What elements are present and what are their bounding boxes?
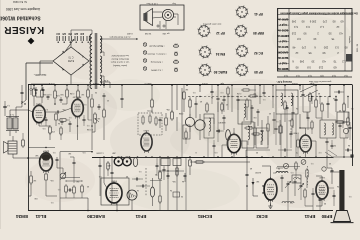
horizontal link t5	[299, 127, 311, 128]
resistor R34	[315, 98, 317, 118]
capacitor C46	[163, 166, 166, 180]
wire chassis drop	[30, 204, 32, 211]
svg-text:25k: 25k	[166, 108, 169, 110]
capacitor C24	[339, 123, 342, 138]
svg-text:= Abgleichpunkt: = Abgleichpunkt	[149, 45, 165, 48]
dashed link osc	[307, 166, 309, 185]
svg-text:+240V: +240V	[48, 82, 55, 84]
wire x182	[181, 88, 183, 157]
label bottom EABC80	[87, 214, 105, 219]
capacitor C7	[69, 121, 72, 132]
svg-text:KAISER: KAISER	[4, 24, 45, 35]
wire Tr2 bottom	[10, 131, 16, 137]
svg-text:1,2: 1,2	[342, 60, 346, 64]
capacitor C21	[292, 110, 295, 128]
tone filter network (dashed)	[138, 113, 162, 135]
resistor R26	[241, 89, 256, 91]
resistor R47	[107, 157, 109, 176]
rect IF can 1	[204, 114, 214, 138]
wire e1	[284, 85, 285, 97]
wire e4	[305, 152, 307, 157]
wire rm3	[295, 114, 297, 157]
wire v-em1	[27, 157, 40, 159]
svg-text:215: 215	[318, 66, 323, 70]
wire a1	[55, 104, 61, 146]
wire vol4	[91, 126, 93, 150]
wire bb3	[246, 186, 248, 211]
capacitor C28	[294, 179, 297, 196]
capacitor C12	[159, 117, 162, 128]
wire antenna feed	[330, 157, 340, 172]
svg-text:1M: 1M	[256, 180, 259, 182]
wire v-em6	[66, 180, 82, 183]
wire t8	[351, 157, 353, 166]
wire bridge left	[40, 61, 53, 75]
coil in can1	[209, 118, 211, 136]
wire drop x152	[151, 85, 153, 100]
tube socket EC 92 (von unten)	[235, 44, 263, 57]
capacitor C30	[333, 190, 336, 206]
wire v-em7	[70, 157, 76, 181]
small coil osc	[150, 178, 154, 206]
resistor R51	[335, 121, 348, 123]
resistor R37	[347, 112, 349, 138]
wire bb2	[246, 157, 248, 172]
resistor R10	[22, 133, 25, 148]
wire vol2	[91, 109, 93, 127]
wire h3	[104, 157, 108, 189]
wire rectifier HT	[100, 76, 105, 85]
wire mid bus	[92, 157, 333, 159]
wire h4	[111, 157, 114, 203]
svg-text:EC 92: EC 92	[254, 51, 263, 55]
svg-text:4,5: 4,5	[322, 60, 326, 64]
resistor R23	[183, 85, 185, 112]
box around EC92 V6	[101, 178, 129, 205]
oscillator coil disc	[127, 190, 137, 200]
wire r5	[343, 85, 345, 104]
wire v-em2	[28, 171, 31, 196]
label EL41	[36, 103, 42, 106]
diag rm2	[325, 150, 337, 158]
wire e0	[261, 145, 263, 157]
box rm	[337, 112, 349, 128]
wire g4	[305, 206, 313, 211]
wire y177 seg	[62, 177, 80, 179]
svg-text:U 400: U 400	[126, 32, 133, 34]
tube socket EF 80 (von unten)	[235, 63, 262, 76]
resistor R49	[185, 128, 187, 144]
label EM34	[42, 150, 49, 152]
coil in can2b	[244, 104, 246, 121]
coil can3 b	[291, 93, 293, 106]
wire y150 seg	[246, 150, 270, 157]
label B+	[144, 82, 152, 84]
label bottom EC92	[256, 214, 268, 219]
capacitor C45	[156, 157, 159, 176]
svg-text:Ug2 V: Ug2 V	[279, 61, 286, 64]
wire a2	[5, 116, 7, 118]
capacitor C40	[99, 157, 102, 180]
resistor R27	[248, 95, 258, 97]
wire if4	[259, 85, 260, 104]
resistor R48	[159, 194, 161, 211]
capacitor C53	[278, 149, 292, 152]
circle small g	[322, 167, 326, 171]
speaker and output transformer box	[140, 5, 184, 30]
wire e2	[292, 96, 293, 110]
bridge rectifier Gr1 B250C75	[53, 47, 89, 75]
rect IF can 2b	[238, 100, 251, 124]
wire EM34 left	[30, 85, 32, 150]
tuning gang C left	[114, 157, 123, 166]
coil IF ellipse	[226, 130, 231, 150]
capacitor C44	[213, 140, 216, 157]
wire y166 link	[277, 166, 300, 168]
capacitor C49	[334, 91, 344, 94]
wire t1	[302, 85, 305, 112]
capacitor C52	[331, 140, 334, 149]
capacitor C4	[60, 97, 63, 103]
wire d4	[241, 141, 247, 157]
capacitor C51	[307, 112, 310, 130]
wire e3	[300, 128, 306, 135]
wire r2	[299, 85, 301, 128]
svg-text:Heizung 6,3V~: Heizung 6,3V~	[276, 80, 292, 82]
label above speaker box	[146, 2, 176, 4]
wire h1	[116, 157, 118, 183]
tube EF41 V2	[141, 131, 152, 153]
wire h9	[176, 157, 178, 211]
horizontal link t6	[316, 100, 322, 118]
IF trafo small box	[292, 175, 301, 183]
label bottom EL41	[35, 214, 46, 219]
coil bottom b	[278, 202, 294, 203]
switch mains Sw1	[30, 84, 32, 95]
wire v-em4	[57, 168, 63, 173]
antenna rod	[331, 170, 354, 223]
wire e5	[311, 141, 316, 157]
wire drop x122	[121, 85, 124, 108]
coil osc a	[324, 123, 326, 135]
svg-text:EF80: EF80	[321, 214, 332, 219]
resistor R17 P1 volume	[94, 112, 99, 125]
wire y152 link	[60, 151, 93, 153]
svg-text:50µF: 50µF	[309, 82, 315, 84]
svg-text:54 / 6234: 54 / 6234	[356, 44, 358, 53]
capacitor C35	[237, 96, 240, 110]
wire h8	[167, 157, 169, 211]
rect on midbus 2	[173, 159, 181, 166]
resistor R46	[60, 126, 62, 140]
svg-text:EM34: EM34	[16, 214, 28, 219]
capacitor C29	[331, 168, 334, 184]
wire f1	[262, 157, 271, 179]
svg-text:+250V: +250V	[201, 82, 208, 84]
svg-text:EBF 80: EBF 80	[253, 31, 264, 35]
svg-text:EC92: EC92	[254, 171, 260, 173]
wire y171 link	[158, 170, 184, 171]
coil in can2	[248, 126, 250, 145]
capacitor C14	[136, 185, 150, 188]
svg-text:5k: 5k	[348, 144, 350, 146]
label Röhrenlage	[202, 23, 221, 26]
wire audio v2	[41, 85, 43, 103]
svg-text:= Lötöse a. Chassis: = Lötöse a. Chassis	[146, 53, 166, 56]
capacitor C47	[312, 188, 315, 206]
capacitor C3	[47, 94, 50, 100]
resistor R24	[189, 97, 191, 119]
component value labels	[33, 88, 353, 204]
resistor R18	[151, 98, 154, 113]
wire secondary to lamp	[100, 38, 138, 40]
wire rm1	[275, 85, 278, 145]
wire gang	[118, 157, 128, 159]
tuning gang C right	[123, 157, 132, 166]
wire Tr2 top to bus	[16, 85, 24, 118]
tube EL41 V4	[33, 103, 45, 124]
wire bm1	[100, 180, 104, 196]
resistor R44	[227, 85, 229, 97]
antenna terminal	[350, 154, 354, 158]
capacitor C41	[132, 178, 143, 181]
wire v-em3	[46, 186, 57, 196]
wire x208b	[207, 138, 209, 157]
tube socket EBF 80 (von unten)	[234, 24, 263, 37]
speaker Lsp	[4, 141, 18, 154]
rect IF can 3	[276, 90, 298, 114]
wire vol5	[88, 119, 92, 121]
wire r6	[340, 138, 348, 150]
trimmer T1	[283, 163, 288, 168]
wire y168 seg	[276, 167, 283, 169]
capacitor C13	[103, 93, 106, 140]
svg-text:1M: 1M	[185, 88, 188, 90]
label tone	[147, 110, 152, 112]
capacitor C32	[290, 128, 293, 148]
coil can3 a	[281, 93, 283, 106]
resistor R31	[267, 116, 269, 145]
resistor R21	[176, 166, 178, 177]
svg-text:EC92: EC92	[256, 214, 268, 219]
capacitor C43	[223, 96, 226, 112]
capacitor C20	[273, 112, 276, 134]
resistor R33	[284, 97, 286, 123]
wire drop x172	[171, 85, 173, 112]
svg-text:0,5M: 0,5M	[178, 112, 183, 114]
resistor R14	[73, 185, 76, 198]
svg-text:1M: 1M	[68, 152, 71, 154]
capacitor C22	[286, 105, 289, 118]
label bottom EM34	[16, 214, 28, 219]
wire mains frame	[26, 63, 53, 100]
svg-text:W 253: W 253	[144, 32, 151, 34]
wire right frame	[352, 85, 354, 167]
box det	[256, 128, 268, 148]
resistor R16	[91, 94, 94, 109]
dashed AVC line	[188, 96, 330, 98]
wire EL41 cathode	[39, 123, 50, 140]
svg-text:+250V: +250V	[92, 82, 99, 84]
small box bm	[173, 192, 180, 197]
svg-text:L13 5 Ohm: L13 5 Ohm	[146, 2, 157, 4]
bus label smudge 2	[112, 152, 115, 155]
resistor R42	[297, 134, 299, 157]
svg-text:EF 41: EF 41	[254, 12, 263, 16]
junction dots on B+ bus	[33, 84, 345, 86]
resistor R22	[189, 157, 192, 175]
capacitor C37	[45, 117, 48, 126]
circle rm	[343, 128, 348, 138]
wire if3	[231, 85, 232, 112]
wire h5	[116, 203, 118, 211]
wire drop x177	[176, 85, 178, 110]
svg-text:EF41: EF41	[304, 214, 315, 219]
capacitor C27	[281, 175, 284, 192]
resistor R52	[311, 118, 313, 134]
wire r3	[315, 85, 317, 100]
svg-text:Ausgabe vom Juni 1950: Ausgabe vom Juni 1950	[6, 7, 40, 11]
label bottom EF41	[135, 214, 146, 219]
wire bottom chassis bus	[28, 210, 333, 212]
svg-text:245: 245	[299, 60, 304, 64]
label bottom EF80	[321, 214, 332, 219]
capacitor C10	[67, 189, 76, 192]
wire vol1	[91, 85, 93, 94]
transformer Tr1 primary and secondaries	[90, 33, 103, 89]
voltage measurement table	[277, 8, 358, 71]
output transformer Tr2	[6, 117, 19, 131]
label EBF80 V2b	[218, 121, 225, 123]
svg-text:EC92: EC92	[110, 180, 116, 182]
capacitor C18	[257, 109, 260, 126]
wire v-em5	[60, 198, 89, 211]
variable cap 1	[285, 181, 291, 200]
wire transformer top	[71, 30, 92, 36]
annotation voltage strapping	[110, 54, 129, 66]
capacitor C42	[167, 173, 170, 186]
wire audio v6	[87, 85, 89, 120]
wire f2	[268, 200, 272, 208]
diode det	[252, 178, 255, 188]
wire t2	[303, 112, 310, 118]
tube socket EABC 80 (von unten)	[198, 63, 227, 76]
svg-text:= Schirmung: = Schirmung	[150, 61, 163, 64]
capacitor mains filter C1 C2	[31, 84, 50, 97]
svg-text:EF41: EF41	[135, 214, 146, 219]
wire x186 drop	[185, 158, 187, 211]
svg-text:Lsp.: Lsp.	[172, 2, 177, 4]
wire h7	[159, 157, 162, 194]
bus label smudge 1	[95, 152, 103, 154]
bus annotation 3	[48, 82, 55, 84]
label EF41 V2	[143, 129, 149, 131]
resistor R20	[165, 113, 168, 131]
wire drop x104	[103, 85, 105, 88]
capacitor C38	[83, 115, 86, 126]
capacitor C34	[211, 85, 214, 104]
wire f3	[287, 200, 289, 211]
tube EF80 V1	[316, 179, 328, 201]
svg-text:1k: 1k	[333, 97, 335, 99]
selector arrow	[64, 39, 74, 53]
capacitor C26	[246, 172, 249, 187]
wire v2 anode	[146, 133, 148, 135]
wire mains cord	[21, 100, 26, 105]
svg-text:6,3V: 6,3V	[103, 79, 108, 81]
resistor R41	[309, 85, 311, 112]
label below speaker box	[126, 32, 169, 34]
tube socket EM 34 (von unten)	[198, 45, 225, 58]
capacitor C9	[56, 157, 59, 168]
svg-text:Netz 220V~: Netz 220V~	[33, 73, 46, 76]
capacitor C15	[195, 97, 198, 119]
resistor R30	[251, 133, 261, 135]
wire Tr2 to EL41 anode	[10, 110, 33, 118]
table footer row	[276, 74, 352, 83]
trimmer T2	[301, 160, 306, 165]
resistor R29	[244, 125, 254, 129]
wire drop2 x177	[176, 117, 178, 131]
coil det	[261, 131, 263, 145]
resistor R19	[171, 110, 174, 121]
label EF80 V1	[319, 176, 325, 178]
title block KAISER Schaltbild W1060	[0, 0, 44, 44]
resistor R40	[304, 188, 306, 206]
resistor R39	[306, 157, 308, 188]
coil IF1a	[195, 114, 205, 140]
resistor R13	[65, 184, 68, 198]
bus annotation 2	[291, 82, 314, 84]
resistor R15	[81, 184, 84, 198]
tube socket EF 41 (von unten)	[235, 5, 262, 18]
svg-text:2k: 2k	[337, 185, 339, 187]
resistor R28	[246, 85, 248, 120]
wire B+ top bus	[28, 84, 352, 86]
wire h2	[103, 88, 105, 157]
component h10	[184, 173, 187, 182]
capacitor C16	[223, 115, 226, 130]
resistor R4	[66, 88, 69, 99]
capacitor C25	[326, 138, 329, 157]
svg-text:ECH81: ECH81	[197, 214, 212, 219]
resistor R2	[41, 88, 47, 99]
label vol	[87, 128, 94, 130]
wire rm5	[311, 96, 312, 104]
capacitor C19	[261, 120, 264, 145]
wire g2	[316, 199, 322, 206]
dashed gang link	[145, 168, 147, 196]
svg-text:EM34: EM34	[42, 150, 49, 152]
label bottom ECH81	[197, 214, 212, 219]
wire heater tap	[100, 52, 104, 56]
capacitor C6	[61, 119, 64, 125]
svg-text:EF 80: EF 80	[254, 70, 263, 74]
potentiometer P2	[60, 172, 66, 180]
wire EABC80 down	[77, 117, 79, 140]
tube EBF80 V2b	[227, 132, 240, 154]
wire heater bottom	[100, 79, 110, 88]
capacitor C31	[335, 96, 338, 112]
tube EC92 V6b	[264, 177, 277, 202]
svg-text:C 2x500: C 2x500	[95, 152, 103, 154]
tube EF80 V5	[300, 133, 312, 154]
wire g5	[328, 188, 334, 190]
wire t3	[280, 114, 282, 157]
wire t4	[286, 118, 288, 157]
mid bus right tail	[333, 156, 352, 158]
pin dots F	[262, 185, 263, 193]
